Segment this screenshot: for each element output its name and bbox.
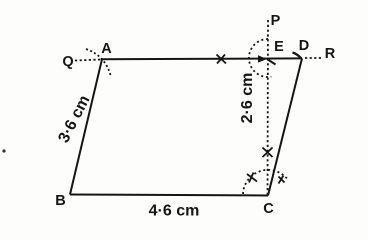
- cross mark on PC line: [263, 148, 273, 158]
- dotted arc at A: [86, 49, 111, 77]
- svg-text:P: P: [271, 13, 281, 29]
- side CD: [268, 58, 302, 195]
- tick on arc at C left: [247, 173, 257, 183]
- arrowhead at E: [258, 55, 267, 62]
- dotted arc at E: [249, 39, 271, 77]
- side BC: [70, 195, 268, 196]
- dashed ray DR: [305, 57, 323, 59]
- dashed perpendicular line PC: [267, 20, 270, 195]
- tick below right of E: [269, 60, 276, 65]
- svg-text:E: E: [274, 39, 284, 55]
- line AD (top side of parallelogram): [102, 57, 302, 60]
- svg-text:Q: Q: [62, 54, 73, 70]
- svg-text:2·6 cm: 2·6 cm: [239, 73, 256, 124]
- svg-text:A: A: [101, 41, 112, 57]
- tick at D: [293, 53, 302, 59]
- svg-text:4·6 cm: 4·6 cm: [149, 203, 200, 220]
- tick on CD at C: [279, 176, 285, 184]
- svg-text:D: D: [299, 38, 309, 54]
- dotted arc at C: [243, 170, 287, 194]
- svg-text:C: C: [263, 201, 274, 217]
- tick mark on AE: [217, 55, 227, 64]
- dashed ray AQ: [75, 60, 101, 61]
- stray dot left margin: [2, 149, 5, 152]
- svg-text:R: R: [325, 46, 336, 62]
- side AB: [70, 59, 102, 194]
- svg-text:B: B: [55, 193, 65, 209]
